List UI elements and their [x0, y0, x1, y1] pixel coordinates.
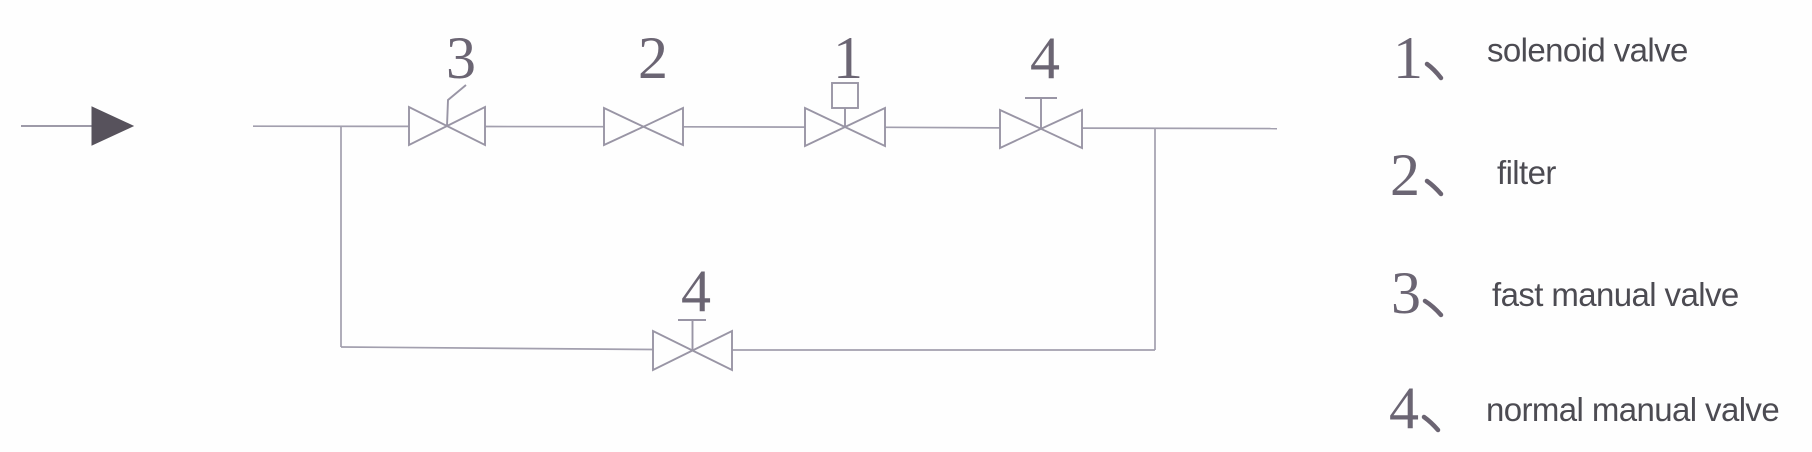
- label 4 (above main-line manual valve): [1030, 25, 1060, 91]
- legend item 4 enumeration comma: [1424, 417, 1438, 430]
- valve 1 (solenoid valve) with coil box: [805, 83, 885, 146]
- svg-text:1: 1: [833, 25, 863, 91]
- legend item 3 text: fast manual valve: [1492, 276, 1739, 313]
- wire: pipe valve 3 to valve 2: [485, 126, 604, 128]
- svg-text:normal manual valve: normal manual valve: [1486, 391, 1779, 428]
- valve 4 (normal manual valve, main line) with T handle: [1000, 98, 1082, 148]
- legend item 1 text: solenoid valve: [1487, 32, 1688, 69]
- valve 3 (fast manual valve) with lever handle: [409, 85, 485, 145]
- legend item 4 numeral: [1389, 375, 1419, 441]
- svg-text:filter: filter: [1497, 154, 1556, 191]
- wire: bypass bottom left segment: [341, 347, 653, 350]
- legend item 2 text: filter: [1497, 154, 1556, 191]
- svg-text:4: 4: [681, 258, 711, 324]
- legend item 1 enumeration comma: [1427, 64, 1441, 78]
- legend item 2 enumeration comma: [1427, 181, 1441, 194]
- svg-text:fast manual valve: fast manual valve: [1492, 276, 1739, 313]
- wire: bypass left vertical drop: [340, 126, 342, 347]
- svg-text:2: 2: [638, 25, 668, 91]
- wire: pipe valve 1 to valve 4: [885, 126, 1000, 129]
- legend item 3 enumeration comma: [1425, 301, 1441, 315]
- svg-text:solenoid valve: solenoid valve: [1487, 32, 1688, 69]
- legend item 2 numeral: [1390, 142, 1420, 208]
- valve 4 (normal manual valve, bypass line) with T handle: [653, 320, 732, 370]
- label 4 (above bypass manual valve): [681, 258, 711, 324]
- wire: bypass right vertical riser: [1154, 128, 1156, 350]
- svg-text:2: 2: [1390, 142, 1420, 208]
- inlet flow arrow: [21, 107, 133, 145]
- wire: pipe valve 4 to outlet: [1082, 127, 1277, 130]
- svg-text:3: 3: [1391, 260, 1421, 326]
- svg-text:1: 1: [1393, 25, 1423, 91]
- label 1 (above solenoid valve): [833, 25, 863, 91]
- wire: main pipe segment inlet to valve 3: [253, 125, 409, 127]
- svg-text:4: 4: [1389, 375, 1419, 441]
- svg-text:4: 4: [1030, 25, 1060, 91]
- label 3 (above fast manual valve): [446, 25, 476, 91]
- svg-text:3: 3: [446, 25, 476, 91]
- wire: pipe valve 2 to valve 1: [683, 126, 805, 128]
- legend item 3 numeral: [1391, 260, 1421, 326]
- label 2 (above filter): [638, 25, 668, 91]
- valve 2 (filter): [604, 108, 683, 145]
- legend item 1 numeral: [1393, 25, 1423, 91]
- legend item 4 text: normal manual valve: [1486, 391, 1779, 428]
- wire: bypass bottom right segment: [732, 349, 1155, 351]
